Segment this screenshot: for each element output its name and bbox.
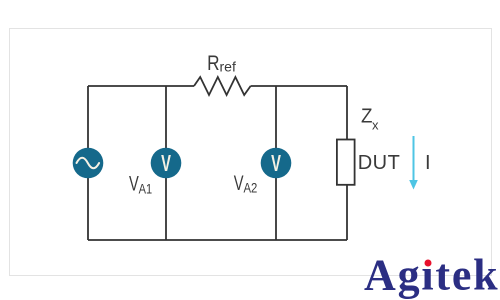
svg-text:V: V xyxy=(234,171,244,194)
svg-text:A1: A1 xyxy=(139,181,153,197)
svg-text:x: x xyxy=(372,118,379,133)
svg-text:Z: Z xyxy=(361,105,373,128)
svg-text:A2: A2 xyxy=(244,179,258,195)
svg-text:ref: ref xyxy=(220,59,236,75)
svg-text:V: V xyxy=(129,172,139,195)
svg-text:V: V xyxy=(271,152,281,177)
svg-text:V: V xyxy=(161,152,171,177)
svg-text:R: R xyxy=(207,52,219,75)
svg-text:DUT: DUT xyxy=(358,152,401,174)
svg-text:I: I xyxy=(425,152,431,174)
svg-text:Agıtek: Agıtek xyxy=(364,251,499,300)
